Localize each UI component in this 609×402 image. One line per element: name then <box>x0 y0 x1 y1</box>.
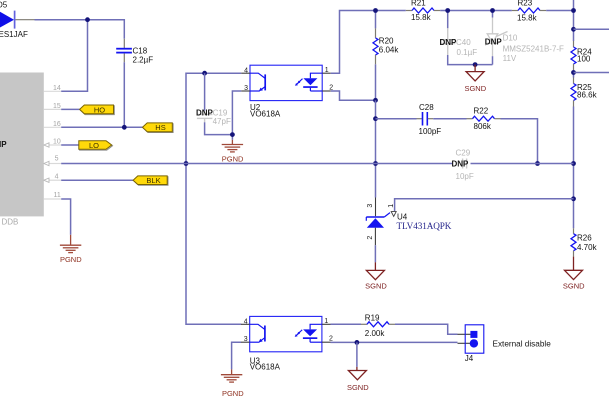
svg-text:2.00k: 2.00k <box>365 329 386 338</box>
wire U2 pin2 to R20 bottom node <box>331 91 376 100</box>
ground PGND (under U2) <box>222 140 243 152</box>
wire pin 11 to PGND <box>61 199 70 235</box>
pin 15 stub <box>44 108 61 110</box>
svg-text:3: 3 <box>367 204 374 208</box>
junction U3 pin2 / SGND branch <box>355 340 360 345</box>
junction right rail / top wire <box>571 8 576 13</box>
wire U4 ref pin to right rail <box>395 199 574 211</box>
junction top rail / C40 <box>445 8 450 13</box>
optocoupler U3 VO618A <box>241 316 333 351</box>
wire D10 bottom to SGND node <box>492 56 494 64</box>
svg-text:15.8k: 15.8k <box>517 14 538 23</box>
wire C18 bottom to HS node <box>123 62 125 127</box>
svg-text:DNP: DNP <box>485 38 503 47</box>
svg-text:SGND: SGND <box>347 383 369 392</box>
wire pin 10 to LO flag <box>61 144 79 146</box>
resistor R20 with branch wire <box>373 11 378 101</box>
wire pin 16 to HS flag <box>61 126 142 128</box>
capacitor C18 <box>116 39 132 62</box>
ground SGND (under R26) <box>565 257 583 280</box>
svg-text:15: 15 <box>53 103 61 110</box>
svg-text:10: 10 <box>53 139 61 146</box>
svg-text:4: 4 <box>55 174 59 181</box>
svg-text:HO: HO <box>94 105 105 114</box>
svg-text:MMSZ5241B-7-F: MMSZ5241B-7-F <box>503 45 564 54</box>
svg-text:R19: R19 <box>365 314 380 323</box>
svg-text:R23: R23 <box>518 0 533 7</box>
resistor R26 <box>571 228 576 256</box>
svg-text:14: 14 <box>53 85 61 92</box>
svg-text:3: 3 <box>244 85 248 92</box>
junction right rail / pin5 net <box>571 161 576 166</box>
svg-text:DNP: DNP <box>440 38 458 47</box>
IC U? gate-driver block (clipped at left edge) <box>0 73 44 217</box>
zener diode D10 (DNP, gray) <box>485 18 507 57</box>
svg-text:0.1µF: 0.1µF <box>457 48 478 57</box>
pin 5 stub with input arrow <box>49 163 61 165</box>
svg-text:11V: 11V <box>503 54 517 63</box>
resistor R19 <box>361 322 395 327</box>
junction pin5 net / center rail <box>373 161 378 166</box>
net label HO <box>80 105 115 115</box>
wire C28 to R22 <box>433 118 466 120</box>
pin 14 stub <box>44 90 61 92</box>
wire pin 15 to HO flag <box>61 108 79 110</box>
capacitor C19 (DNP, gray) <box>197 111 213 123</box>
capacitor C28 <box>417 112 434 126</box>
wire C19 branch top <box>204 73 206 111</box>
svg-text:1: 1 <box>324 318 328 325</box>
svg-text:86.6k: 86.6k <box>577 90 598 99</box>
wire U3 pin1 to R19 <box>331 323 362 325</box>
svg-text:15.8k: 15.8k <box>411 13 432 22</box>
capacitor C40 (DNP, gray) <box>440 28 455 55</box>
optocoupler U2 VO618A <box>241 65 333 100</box>
svg-text:HS: HS <box>155 123 165 132</box>
svg-text:2: 2 <box>367 236 374 240</box>
wire node down to pin 14 <box>61 20 87 92</box>
svg-text:External disable: External disable <box>493 339 552 348</box>
svg-text:47pF: 47pF <box>213 117 231 126</box>
svg-text:SGND: SGND <box>563 281 585 290</box>
svg-text:DDB: DDB <box>2 217 19 226</box>
resistor R23 <box>512 8 546 13</box>
svg-text:VO618A: VO618A <box>250 110 281 119</box>
svg-text:4: 4 <box>244 67 248 74</box>
svg-text:IP: IP <box>0 140 7 149</box>
svg-text:D10: D10 <box>503 34 518 43</box>
junction right rail tap 1 <box>571 27 576 32</box>
wire U2 pin4 left, down left vertical rail, to U3 pin4 <box>186 73 241 324</box>
wire C40 bottom to SGND node <box>448 55 493 65</box>
svg-text:PGND: PGND <box>222 154 244 163</box>
wire SGND branch down <box>356 342 358 367</box>
pin 4 stub with input arrow <box>49 179 61 181</box>
diode D5 <box>0 11 35 29</box>
wire R24 to tap 2 <box>573 70 575 78</box>
junction right rail tap 2 <box>571 70 576 75</box>
net label LO <box>79 141 113 150</box>
svg-text:100: 100 <box>577 55 591 64</box>
wire R20 node down to C28 row and pin5 net and U4 <box>375 100 377 197</box>
wire pin 5 long net (right of C29) <box>471 163 574 165</box>
svg-text:R21: R21 <box>411 0 426 7</box>
wire U4 anode down <box>374 245 376 262</box>
ground SGND (under J4 net) <box>348 367 366 380</box>
junction C19 bottom / U2 pin3 <box>230 132 235 137</box>
svg-text:4.70k: 4.70k <box>577 243 598 252</box>
svg-text:DNP: DNP <box>196 108 214 117</box>
wire tap to right edge (upper) <box>574 28 609 30</box>
svg-text:1: 1 <box>388 204 395 208</box>
resistor R21 <box>406 8 440 13</box>
wire C19 bottom to PGND node <box>205 122 233 134</box>
junction at HS node <box>122 125 127 130</box>
junction U2 pin4 / C19 top <box>202 71 207 76</box>
wire pin 5 long net (left of C29) <box>61 163 452 165</box>
wire R19 to J4 pin1 with jog <box>395 324 458 334</box>
svg-text:R26: R26 <box>577 233 592 242</box>
svg-text:6.04k: 6.04k <box>379 46 400 55</box>
wire node to C18 top <box>88 20 125 39</box>
svg-text:1: 1 <box>325 67 329 74</box>
resistor R25 <box>571 78 576 107</box>
wire top rail R21 to R23 <box>440 10 512 12</box>
svg-text:C28: C28 <box>419 103 434 112</box>
junction top rail / D10 <box>490 8 495 13</box>
svg-text:DNP: DNP <box>452 160 470 169</box>
wire C28 row from center rail <box>376 118 417 120</box>
junction C28 row <box>373 116 378 121</box>
svg-text:4: 4 <box>244 318 248 325</box>
ground SGND (under U4) <box>366 262 384 279</box>
svg-text:3: 3 <box>244 336 248 343</box>
junction left rail / pin-5 net <box>184 161 189 166</box>
J4 pin2 stub <box>458 342 471 344</box>
ground PGND (under U3) <box>221 369 242 382</box>
ground PGND (under pin 11) <box>60 235 81 253</box>
junction R22 branch / pin5 net <box>535 161 540 166</box>
svg-text:ES1JAF: ES1JAF <box>0 30 28 39</box>
capacitor C29 (DNP, gray) <box>463 159 467 169</box>
pin 11 stub <box>44 198 61 200</box>
junction right rail / U4 ref net <box>571 196 576 201</box>
svg-text:PGND: PGND <box>222 389 244 398</box>
svg-text:10pF: 10pF <box>456 172 474 181</box>
junction top rail / R20 <box>373 8 378 13</box>
svg-text:SGND: SGND <box>464 84 486 93</box>
svg-text:LO: LO <box>89 141 99 150</box>
pin 10 stub with input arrow <box>49 144 61 146</box>
svg-text:C40: C40 <box>456 38 471 47</box>
right rail vertical wire <box>573 0 575 41</box>
J4 pin1 stub <box>458 333 472 335</box>
wire U3 pin3 to PGND <box>232 342 241 369</box>
svg-text:5: 5 <box>55 156 59 163</box>
svg-text:VO618A: VO618A <box>250 363 281 372</box>
svg-text:C18: C18 <box>133 46 148 55</box>
svg-text:2: 2 <box>329 336 333 343</box>
ground SGND (under C40/D10) <box>466 65 484 81</box>
svg-text:R20: R20 <box>379 36 394 45</box>
svg-text:100pF: 100pF <box>419 127 442 136</box>
svg-text:C29: C29 <box>456 149 471 158</box>
capacitor C40 (DNP) branch wire from top rail <box>447 11 449 29</box>
net label BLK <box>133 176 168 185</box>
svg-text:PGND: PGND <box>60 255 82 264</box>
wire top rail R23 to right rail <box>546 10 573 12</box>
wire U2 pin1 up to top rail <box>331 11 406 74</box>
net label HS <box>143 123 174 133</box>
svg-text:BLK: BLK <box>146 176 160 185</box>
wire U3 pin2 to J4 pin2 <box>331 341 458 343</box>
wire right rail R25 down to R26 <box>573 107 575 229</box>
connector J4 <box>465 325 484 353</box>
wire D5 cathode to node <box>35 19 88 21</box>
svg-text:11: 11 <box>54 192 61 199</box>
junction at D5 node <box>85 17 90 22</box>
svg-text:J4: J4 <box>465 354 474 363</box>
wire tap to right edge (lower) <box>574 72 609 74</box>
svg-text:2.2µF: 2.2µF <box>133 56 154 65</box>
pin 16 stub <box>44 126 61 128</box>
wire pin 4 to BLK flag <box>61 179 133 181</box>
shunt regulator U4 TLV431AQPK <box>366 198 396 246</box>
svg-text:16: 16 <box>53 121 61 128</box>
svg-text:806k: 806k <box>474 122 492 131</box>
wire R22 down to pin5 net <box>501 119 538 164</box>
svg-text:TLV431AQPK: TLV431AQPK <box>397 221 452 231</box>
resistor R22 <box>467 116 501 121</box>
wire U2 pin3 down to PGND node <box>232 91 241 140</box>
resistor R24 <box>571 41 576 70</box>
svg-text:SGND: SGND <box>365 282 387 291</box>
junction R20 bottom / U2 pin2 <box>373 98 378 103</box>
svg-text:R22: R22 <box>474 107 489 116</box>
svg-text:D5: D5 <box>0 1 8 10</box>
junction C40/D10 bottom SGND node <box>473 62 478 67</box>
zener diode D10 (DNP) branch wire from top rail <box>492 11 494 18</box>
